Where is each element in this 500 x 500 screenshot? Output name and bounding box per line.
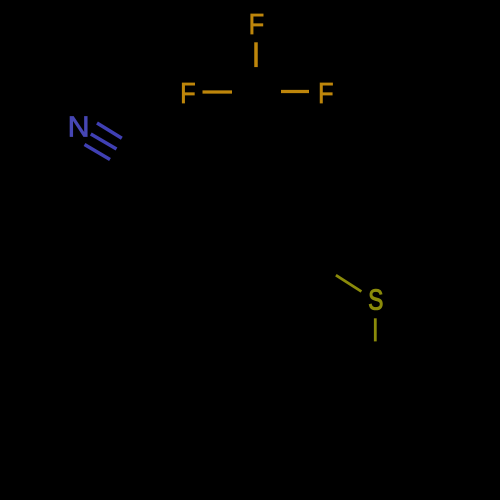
wire S-CH3 bond vertical (374, 318, 377, 341)
svg-text:F: F (249, 7, 265, 40)
wire triple bond C#N line 3 (85, 145, 111, 160)
wire C-S bond diagonal from ring (336, 275, 362, 291)
svg-text:S: S (368, 283, 383, 316)
wire triple bond C#N line 2 (91, 134, 117, 149)
node F left (180, 76, 196, 109)
wire C-F bond left horizontal (203, 90, 233, 93)
node S (thioether sulfur) (368, 283, 383, 316)
svg-text:F: F (180, 76, 196, 109)
wire triple bond C#N line 1 (97, 123, 122, 138)
svg-text:F: F (318, 76, 334, 109)
node F top (249, 7, 265, 40)
node N (nitrile nitrogen) (68, 111, 90, 143)
node F right (318, 76, 334, 109)
svg-text:N: N (68, 111, 90, 143)
wire C-F bond vertical (254, 42, 258, 67)
wire C-F bond right horizontal (281, 90, 309, 93)
